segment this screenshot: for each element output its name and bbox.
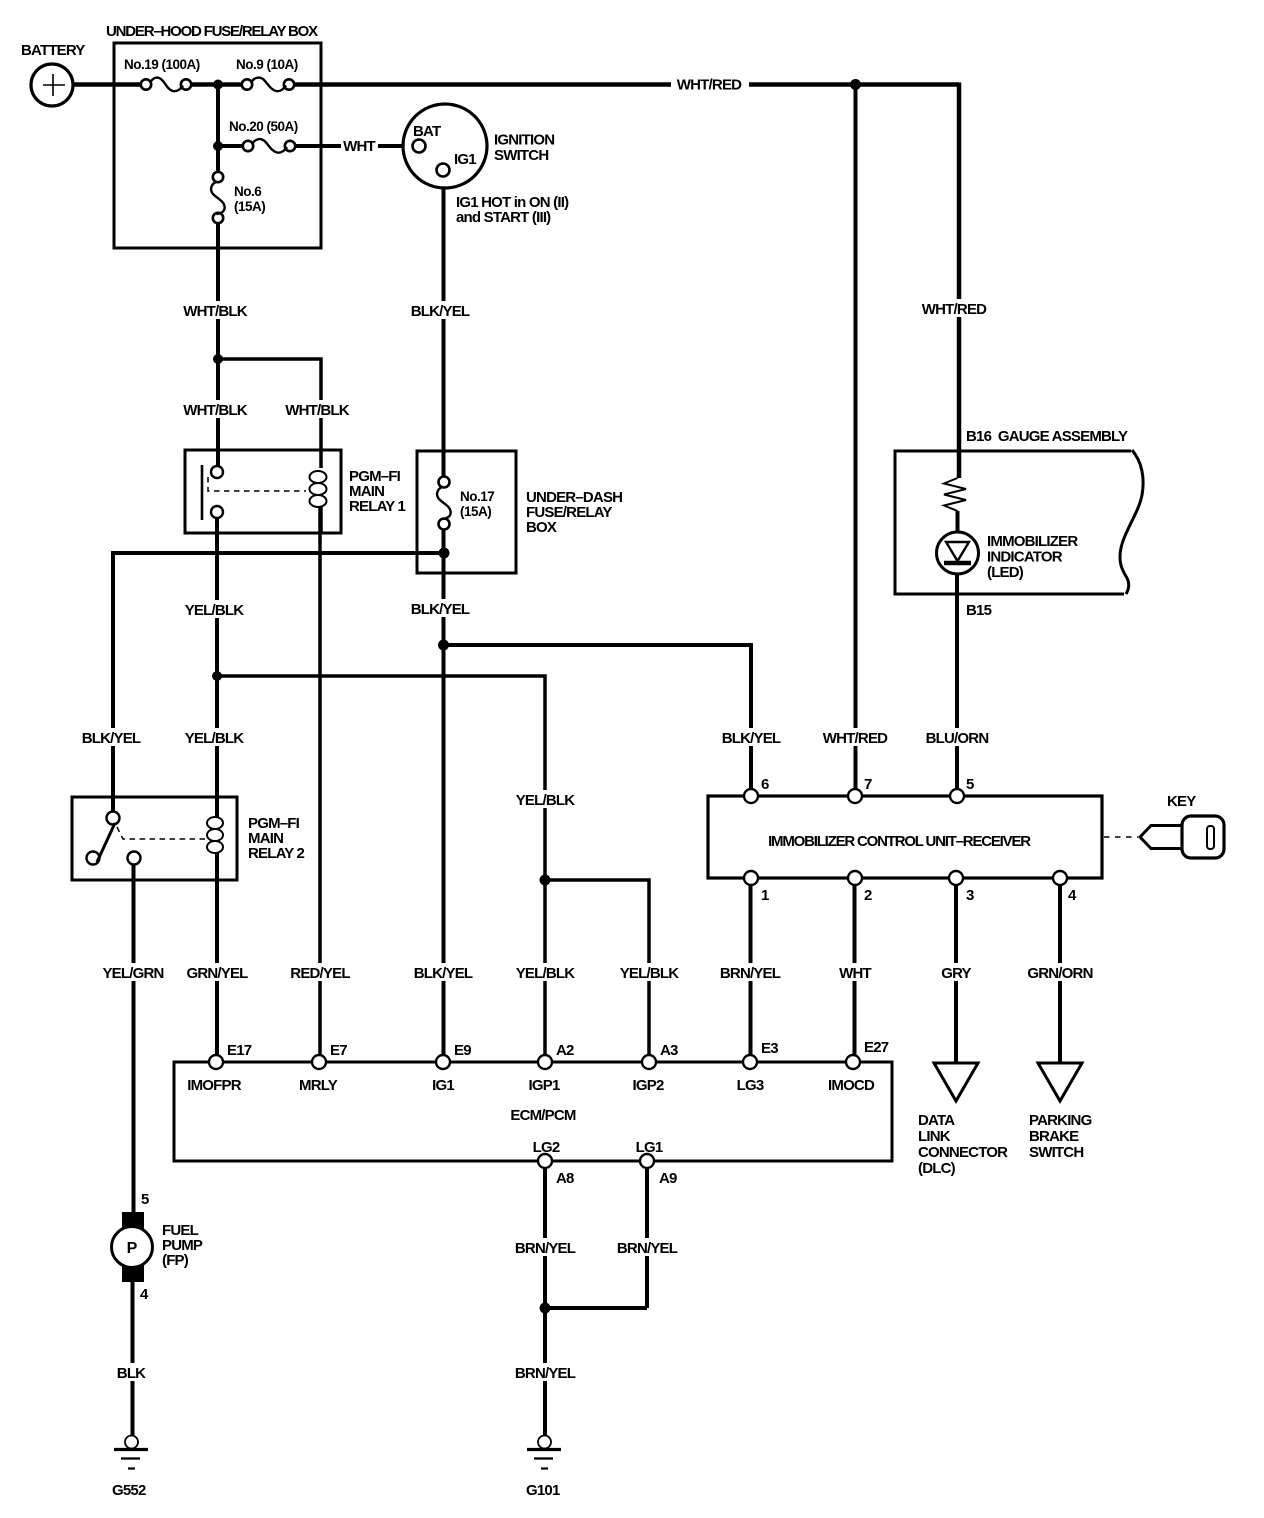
svg-text:A2: A2 — [556, 1042, 574, 1059]
svg-text:B16 GAUGE ASSEMBLY: B16 GAUGE ASSEMBLY — [966, 428, 1128, 445]
svg-text:LG1: LG1 — [636, 1139, 663, 1156]
wire No.6 fuse vertical through box down to relay 1 contact — [216, 146, 220, 466]
fuse No.9 (10A) — [242, 78, 294, 92]
net label WHT/RED (immobilizer pin 7) — [824, 728, 887, 746]
svg-text:YEL/BLK: YEL/BLK — [620, 965, 680, 982]
svg-text:YEL/BLK: YEL/BLK — [185, 602, 245, 619]
svg-text:BATTERY: BATTERY — [21, 42, 85, 59]
wire relay 1 contact lower terminal down to relay 2 coil (YEL/BLK) — [215, 518, 219, 818]
svg-text:BOX: BOX — [526, 519, 557, 536]
svg-text:DATA: DATA — [918, 1112, 955, 1129]
wire relay 2 contact output down to fuel pump (YEL/GRN) — [132, 864, 136, 1212]
pin A8 — [538, 1154, 552, 1168]
RIGHT SIDE COMPONENTS — [708, 428, 1224, 1177]
gauge assembly box (torn right edge) — [895, 451, 1131, 594]
net label BLK/YEL (No.17 out) — [409, 599, 472, 617]
svg-text:MRLY: MRLY — [299, 1077, 338, 1094]
PGM-FI main relay 1 — [185, 450, 341, 533]
svg-text:G552: G552 — [112, 1482, 146, 1499]
net label BRN/YEL (A9) — [616, 1238, 679, 1256]
wire relay 2 coil down to ECM pin E17 (GRN/YEL) — [215, 852, 219, 1055]
svg-text:WHT/RED: WHT/RED — [677, 77, 742, 94]
wire branch WHT/BLK to relay 1 coil — [218, 359, 321, 450]
ground G101 — [527, 1436, 561, 1469]
svg-text:6: 6 — [761, 776, 769, 793]
battery — [31, 64, 73, 106]
wire WHT/RED junction down to immobilizer pin 7 — [854, 85, 858, 790]
junction WHT/BLK branch to relay 1 coil — [213, 354, 223, 364]
net label YEL/BLK (A2 branch) — [514, 790, 577, 808]
junction YEL/BLK split to A3 — [540, 875, 551, 886]
svg-text:7: 7 — [864, 776, 872, 793]
svg-text:LINK: LINK — [918, 1128, 951, 1145]
wire No.17 fuse down to ECM pin E9 (BLK/YEL) — [442, 529, 446, 1055]
net label WHT (to ignition BAT) — [341, 138, 378, 154]
pin E27 — [846, 1055, 860, 1069]
net label YEL/BLK (relay 1 out) — [183, 600, 246, 618]
mechanical link (dashed) — [117, 827, 205, 839]
net label YEL/BLK (A3) — [618, 963, 681, 981]
svg-text:YEL/GRN: YEL/GRN — [102, 965, 163, 982]
svg-text:1: 1 — [761, 887, 769, 904]
svg-text:BLK: BLK — [117, 1365, 146, 1382]
svg-text:GRN/YEL: GRN/YEL — [186, 965, 248, 982]
svg-text:BRN/YEL: BRN/YEL — [515, 1240, 576, 1257]
svg-text:BLK/YEL: BLK/YEL — [82, 730, 141, 747]
wire branch from No.17 output to immobilizer pin 6 (BLK/YEL) — [444, 645, 752, 789]
pin E17 — [209, 1055, 223, 1069]
svg-text:YEL/BLK: YEL/BLK — [516, 792, 576, 809]
net label BLK (to G552) — [113, 1363, 150, 1381]
svg-text:INDICATOR: INDICATOR — [987, 549, 1063, 566]
svg-text:ECM/PCM: ECM/PCM — [510, 1107, 576, 1124]
svg-text:IMOFPR: IMOFPR — [187, 1077, 241, 1094]
net label WHT/BLK (upper) — [184, 301, 247, 319]
svg-text:No.9 (10A): No.9 (10A) — [236, 57, 298, 72]
svg-text:RED/YEL: RED/YEL — [290, 965, 350, 982]
pin E9 — [436, 1055, 450, 1069]
pin 4 — [1053, 871, 1067, 885]
resistor (gauge assembly) — [944, 478, 966, 511]
contact bar — [201, 465, 204, 520]
svg-text:RELAY 2: RELAY 2 — [248, 845, 305, 862]
immobilizer control unit-receiver box — [708, 796, 1102, 878]
svg-text:5: 5 — [141, 1191, 149, 1208]
svg-text:WHT/BLK: WHT/BLK — [285, 402, 350, 419]
svg-text:IMMOBILIZER: IMMOBILIZER — [987, 533, 1078, 550]
wire fuel pump to ground G552 (BLK) — [131, 1281, 135, 1436]
svg-text:IG1: IG1 — [432, 1077, 454, 1094]
pin A2 — [538, 1055, 552, 1069]
svg-text:No.6: No.6 — [234, 184, 262, 199]
svg-text:G101: G101 — [526, 1482, 560, 1499]
svg-text:LG2: LG2 — [533, 1139, 560, 1156]
svg-text:WHT: WHT — [839, 965, 871, 982]
svg-text:WHT/BLK: WHT/BLK — [183, 402, 248, 419]
junction fuse No.19 / No.9 / No.20 — [213, 80, 223, 90]
svg-text:E17: E17 — [227, 1042, 252, 1059]
pin A3 — [642, 1055, 656, 1069]
svg-text:GRY: GRY — [941, 965, 971, 982]
pin E7 — [312, 1055, 326, 1069]
data link connector arrow — [934, 1063, 978, 1101]
svg-text:5: 5 — [966, 776, 974, 793]
svg-text:IMMOBILIZER CONTROL UNIT–RECEI: IMMOBILIZER CONTROL UNIT–RECEIVER — [768, 833, 1031, 850]
svg-text:SWITCH: SWITCH — [494, 147, 548, 164]
junction WHT/RED feed to immobilizer pin 7 — [850, 79, 861, 90]
BOTTOM COMPONENTS — [112, 1191, 562, 1499]
relay 2 coil — [215, 797, 219, 818]
net label BLU/ORN (immobilizer pin 5) — [926, 728, 989, 746]
svg-text:YEL/BLK: YEL/BLK — [516, 965, 576, 982]
svg-text:WHT/BLK: WHT/BLK — [183, 303, 248, 320]
wire horizontal feed from No.17 output to relay 2 contact (BLK/YEL) — [113, 553, 444, 812]
svg-text:BLU/ORN: BLU/ORN — [926, 730, 989, 747]
wire gauge LED down to immobilizer pin 5 (BLU/ORN) — [955, 574, 959, 789]
net label RED/YEL — [289, 963, 352, 981]
wire YEL/BLK branch over to ECM pin A3 — [545, 880, 649, 1055]
svg-text:3: 3 — [966, 887, 974, 904]
net label WHT/RED (top feed) — [671, 76, 749, 93]
svg-text:YEL/BLK: YEL/BLK — [185, 730, 245, 747]
svg-text:BRN/YEL: BRN/YEL — [617, 1240, 678, 1257]
fuse No.6 (15A) — [211, 172, 225, 223]
ground G552 — [114, 1436, 148, 1469]
fuse No.20 (50A) — [243, 139, 295, 153]
svg-text:BLK/YEL: BLK/YEL — [722, 730, 781, 747]
pin 2 — [848, 871, 862, 885]
wire YEL/BLK branch to A2/A3 — [217, 676, 545, 1055]
net label BRN/YEL (E3) — [719, 963, 782, 981]
svg-text:BRN/YEL: BRN/YEL — [515, 1365, 576, 1382]
net label GRN/YEL — [186, 963, 249, 981]
net label YEL/GRN — [102, 963, 165, 981]
key link (dashed) — [1104, 836, 1138, 838]
relay 2 switch arm — [97, 823, 115, 862]
wire relay 1 coil down to ECM pin E7 (RED/YEL) — [318, 506, 322, 1055]
svg-text:RELAY 1: RELAY 1 — [349, 498, 406, 515]
svg-text:E27: E27 — [864, 1039, 889, 1056]
svg-text:UNDER–HOOD FUSE/RELAY BOX: UNDER–HOOD FUSE/RELAY BOX — [106, 23, 318, 40]
junction YEL/BLK branch to A2/A3 — [212, 671, 222, 681]
svg-text:WHT/RED: WHT/RED — [823, 730, 888, 747]
under-dash fuse/relay box — [417, 451, 516, 573]
svg-text:No.20 (50A): No.20 (50A) — [229, 119, 298, 134]
wire IG1 down to No.17 fuse — [442, 177, 446, 477]
net label WHT (E27) — [836, 963, 875, 981]
net label GRN/ORN (parking brake) — [1026, 963, 1094, 981]
wire immobilizer pin 2 to ECM pin E27 (WHT) — [853, 885, 857, 1055]
key symbol — [1140, 816, 1224, 858]
svg-text:LG3: LG3 — [737, 1077, 764, 1094]
svg-text:(15A): (15A) — [234, 199, 265, 214]
net label GRY (DLC) — [939, 963, 974, 981]
net label BRN/YEL (to G101) — [514, 1363, 577, 1381]
svg-text:IMOCD: IMOCD — [828, 1077, 875, 1094]
svg-text:SWITCH: SWITCH — [1029, 1144, 1083, 1161]
fuel pump — [112, 1212, 153, 1282]
net label BLK/YEL (E9) — [412, 963, 475, 981]
ECM/PCM box — [174, 1062, 892, 1161]
fuse No.17 (15A) — [437, 477, 451, 530]
svg-text:E7: E7 — [330, 1042, 347, 1059]
PGM-FI main relay 2 — [72, 797, 237, 880]
svg-text:A3: A3 — [660, 1042, 678, 1059]
svg-text:BLK/YEL: BLK/YEL — [411, 601, 470, 618]
svg-text:BAT: BAT — [413, 123, 441, 140]
svg-text:E3: E3 — [761, 1040, 778, 1057]
svg-text:KEY: KEY — [1167, 793, 1196, 810]
svg-text:BRAKE: BRAKE — [1029, 1128, 1079, 1145]
pin BAT terminal — [413, 140, 426, 153]
svg-text:A9: A9 — [659, 1170, 677, 1187]
net label BRN/YEL (A8) — [514, 1238, 577, 1256]
net label YEL/BLK (A2) — [514, 963, 577, 981]
junction BRN/YEL A8/A9 merge — [540, 1303, 551, 1314]
net label BLK/YEL (immobilizer pin 6) — [720, 728, 783, 746]
svg-text:2: 2 — [864, 887, 872, 904]
wire ECM pin A9 branch to A8 ground run (BRN/YEL) — [545, 1168, 647, 1308]
net label WHT/BLK (relay 1 coil) — [286, 400, 349, 418]
svg-text:IG1: IG1 — [454, 151, 476, 168]
net label WHT/BLK (relay 1 contact) — [184, 400, 247, 418]
pin 7 — [848, 789, 862, 803]
mechanical link (dashed) — [208, 477, 306, 491]
wire top feed corner down to gauge assembly resistor — [957, 83, 962, 479]
wire immobilizer pin 1 to ECM pin E3 (BRN/YEL) — [749, 885, 753, 1055]
relay 2 switch terminals — [107, 812, 120, 825]
ignition switch — [403, 104, 487, 188]
svg-text:WHT/RED: WHT/RED — [922, 301, 987, 318]
wire No.20 to ignition switch BAT — [218, 144, 413, 148]
net label BLK/YEL (relay 2 contact feed) — [80, 728, 143, 746]
pin E3 — [743, 1055, 757, 1069]
pin 5 — [950, 789, 964, 803]
svg-text:IGP1: IGP1 — [529, 1077, 560, 1094]
pin A9 — [640, 1154, 654, 1168]
under-hood fuse/relay box — [114, 43, 321, 248]
svg-text:P: P — [127, 1240, 138, 1257]
wire ECM pin A8 to ground G101 (BRN/YEL) — [543, 1168, 547, 1436]
ECM/PCM — [174, 1039, 892, 1187]
relay 1 coil — [319, 450, 323, 468]
svg-text:WHT: WHT — [343, 138, 375, 155]
net label BLK/YEL (upper, IG1) — [409, 301, 472, 319]
WIRE COLOR LABELS — [80, 76, 1094, 1382]
svg-text:GRN/ORN: GRN/ORN — [1027, 965, 1092, 982]
svg-text:(15A): (15A) — [460, 504, 491, 519]
junction BLK/YEL branch to immobilizer pin 6 — [438, 640, 449, 651]
svg-text:and START (III): and START (III) — [456, 209, 551, 226]
svg-text:No.17: No.17 — [460, 489, 494, 504]
fuse No.19 (100A) — [141, 78, 191, 92]
pin 1 — [744, 871, 758, 885]
svg-text:BLK/YEL: BLK/YEL — [411, 303, 470, 320]
parking brake switch arrow — [1038, 1063, 1082, 1101]
svg-text:(FP): (FP) — [162, 1252, 189, 1269]
pin 6 — [744, 789, 758, 803]
svg-text:(DLC): (DLC) — [918, 1160, 956, 1177]
svg-text:E9: E9 — [454, 1042, 471, 1059]
wire battery to top-right corner (WHT/RED main feed) — [72, 82, 959, 87]
junction No.20 / No.6 — [213, 141, 223, 151]
net label YEL/BLK (relay 2 coil feed) — [183, 728, 246, 746]
pin 3 — [949, 871, 963, 885]
immobilizer indicator LED — [937, 532, 979, 574]
pin IG1 terminal — [437, 164, 450, 177]
wire junction No.19/No.9 down to No.20 — [216, 85, 220, 147]
wire immobilizer pin 4 to parking brake switch (GRN/ORN) — [1058, 885, 1062, 1062]
svg-text:No.19 (100A): No.19 (100A) — [124, 57, 200, 72]
svg-text:BRN/YEL: BRN/YEL — [720, 965, 781, 982]
junction No.17 output / relay 2 feed — [439, 548, 450, 559]
svg-text:CONNECTOR: CONNECTOR — [918, 1144, 1008, 1161]
net label WHT/RED (gauge feed) — [923, 299, 986, 317]
svg-text:PARKING: PARKING — [1029, 1112, 1092, 1129]
svg-text:IGNITION: IGNITION — [494, 132, 554, 149]
contact terminals — [211, 466, 223, 478]
wire immobilizer pin 3 to data link connector (GRY) — [954, 885, 958, 1062]
svg-text:IGP2: IGP2 — [633, 1077, 664, 1094]
svg-text:B15: B15 — [966, 602, 992, 619]
svg-text:BLK/YEL: BLK/YEL — [414, 965, 473, 982]
svg-text:A8: A8 — [556, 1170, 574, 1187]
svg-text:(LED): (LED) — [987, 564, 1024, 581]
